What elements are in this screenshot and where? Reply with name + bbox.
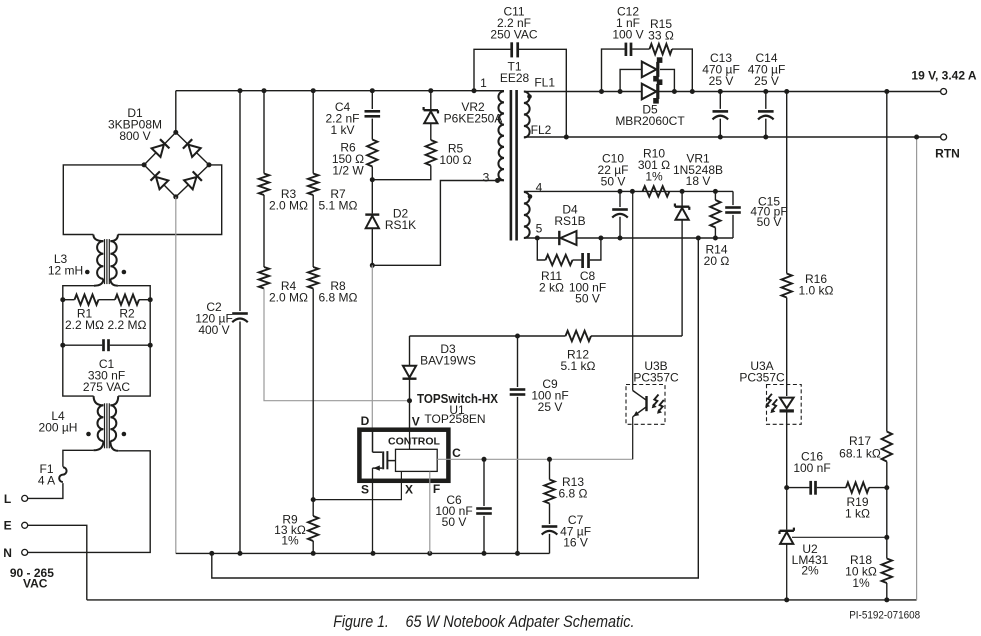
svg-text:100 nF: 100 nF (793, 461, 830, 475)
resistor R5 (372, 140, 471, 180)
svg-text:1%: 1% (852, 576, 870, 590)
wire RTN rail (524, 135, 941, 140)
wire R1/R2 line to L3 bottoms (63, 286, 150, 300)
wire bridge negative to ground bus (175, 197, 177, 554)
svg-text:25 V: 25 V (538, 400, 563, 414)
wire L terminal to fuse (28, 483, 63, 498)
input terminal E (4, 519, 28, 533)
wire bridge positive to HV bus (175, 91, 177, 133)
svg-text:100 V: 100 V (612, 27, 643, 41)
svg-text:RS1B: RS1B (554, 214, 585, 228)
zener diode VR2 (424, 91, 503, 140)
resistor R19 (845, 482, 887, 520)
svg-text:N: N (3, 546, 12, 560)
svg-text:PC357C: PC357C (739, 371, 785, 385)
capacitor C1 (60, 339, 152, 394)
wire C pin line (437, 457, 633, 462)
capacitor C10 (598, 152, 629, 238)
svg-text:6.8 MΩ: 6.8 MΩ (319, 291, 358, 305)
resistor R16 (782, 92, 834, 397)
U1 internal mosfet (373, 430, 396, 471)
svg-text:275 VAC: 275 VAC (83, 380, 130, 394)
resistor R10 (638, 147, 670, 197)
shunt regulator U2 LM431 (780, 488, 887, 603)
wire R8 to X node (311, 289, 316, 503)
transformer T1 core (500, 60, 530, 241)
svg-text:F: F (433, 482, 440, 496)
wire R4 to V pin node (264, 289, 410, 401)
svg-text:1%: 1% (645, 169, 663, 183)
output terminal RTN (935, 134, 960, 161)
svg-text:2.2 MΩ: 2.2 MΩ (108, 318, 147, 332)
resistor R1 (60, 295, 104, 333)
svg-text:33 Ω: 33 Ω (648, 29, 674, 43)
svg-text:19 V, 3.42 A: 19 V, 3.42 A (911, 69, 976, 83)
transformer T1 secondary winding (524, 181, 543, 238)
resistor R4 (259, 195, 308, 305)
capacitor C15 (725, 191, 787, 238)
zener diode VR1 (673, 152, 723, 337)
svg-text:BAV19WS: BAV19WS (420, 354, 476, 368)
capacitor C6 (435, 459, 491, 553)
svg-text:5.1 kΩ: 5.1 kΩ (561, 359, 596, 373)
resistor R2 (99, 295, 153, 333)
svg-text:200 µH: 200 µH (39, 421, 78, 435)
svg-text:FL1: FL1 (534, 76, 555, 90)
wire fuse to L4 left winding (63, 450, 94, 466)
svg-text:250 VAC: 250 VAC (490, 27, 537, 41)
svg-text:2.0 MΩ: 2.0 MΩ (269, 199, 308, 213)
diode D3 (403, 336, 476, 401)
svg-text:P6KE250A: P6KE250A (444, 112, 503, 126)
snubber C12 (602, 5, 650, 92)
wire output rail (524, 89, 941, 94)
svg-text:20 Ω: 20 Ω (704, 254, 730, 268)
svg-text:X: X (405, 483, 413, 497)
ic U1 body (359, 430, 448, 481)
node clamp top (370, 177, 375, 182)
svg-text:1 kV: 1 kV (330, 123, 354, 137)
pin V label (412, 415, 420, 429)
svg-text:50 V: 50 V (442, 515, 467, 529)
wire ground bus to bias return link (212, 236, 701, 579)
pin X label (405, 483, 413, 497)
capacitor C16 (787, 450, 846, 495)
wire L3 right to bridge AC right (118, 165, 222, 235)
svg-text:4 A: 4 A (38, 474, 55, 488)
capacitor C13 (702, 51, 740, 137)
resistor R9 (274, 500, 318, 554)
fuse F1 (38, 462, 67, 487)
svg-text:1%: 1% (281, 534, 299, 548)
resistor R3 (259, 91, 308, 213)
wire VR1 to R12 line (410, 334, 683, 339)
wire bias return rail (pin 5) (524, 236, 733, 241)
svg-text:50 V: 50 V (757, 215, 782, 229)
label 90-265 VAC (10, 566, 54, 590)
node V pin (407, 398, 412, 430)
svg-text:D: D (361, 414, 370, 428)
capacitor C11 (474, 5, 569, 140)
wire L4 to C1 box rails (63, 345, 150, 396)
optocoupler U3A photodiode (739, 359, 801, 424)
svg-text:5.1 MΩ: 5.1 MΩ (319, 199, 358, 213)
svg-text:1 kΩ: 1 kΩ (845, 507, 870, 521)
svg-text:16 V: 16 V (563, 536, 588, 550)
svg-text:50 V: 50 V (575, 292, 600, 306)
svg-text:1: 1 (480, 76, 487, 90)
svg-text:L: L (4, 492, 11, 506)
bridge rectifier D1 (108, 106, 212, 199)
svg-text:RS1K: RS1K (385, 218, 416, 232)
resistor R13 (544, 459, 587, 503)
svg-text:5: 5 (536, 222, 543, 236)
wire S pin to ground bus (372, 468, 374, 553)
pin S label (361, 483, 369, 497)
wire U3A cathode to C16 node (784, 410, 789, 490)
svg-text:EE28: EE28 (500, 71, 530, 85)
optocoupler U3B phototransistor (626, 191, 679, 459)
svg-text:MBR2060CT: MBR2060CT (615, 114, 685, 128)
capacitor C2 (195, 91, 248, 554)
input terminal L (4, 492, 28, 506)
svg-text:2.2 MΩ: 2.2 MΩ (65, 318, 104, 332)
svg-text:25 V: 25 V (754, 74, 779, 88)
label U1 TOP258EN (424, 403, 485, 426)
capacitor C9 (510, 336, 569, 553)
wire X pin to R8/R9 node (313, 472, 401, 500)
diode D2 (365, 180, 416, 266)
svg-text:2 kΩ: 2 kΩ (539, 280, 564, 294)
svg-text:Figure 1.: Figure 1. (333, 612, 389, 631)
wire primary ground bus (176, 551, 550, 556)
U1 internal control block (396, 430, 438, 472)
output terminal 19V (911, 69, 976, 95)
svg-text:2%: 2% (801, 563, 819, 577)
pin C label (452, 446, 461, 460)
svg-text:1/2 W: 1/2 W (332, 163, 364, 177)
transformer T1 primary winding (474, 76, 504, 185)
caption PI number (849, 609, 920, 621)
wire N terminal to L4 right winding (28, 451, 151, 553)
svg-text:1.0 kΩ: 1.0 kΩ (799, 284, 834, 298)
svg-text:12 mH: 12 mH (48, 264, 83, 278)
resistor R6 (332, 140, 378, 180)
svg-text:PI-5192-071608: PI-5192-071608 (849, 609, 920, 621)
svg-text:100 Ω: 100 Ω (439, 153, 471, 167)
wire RTN riser right side (914, 135, 919, 600)
svg-text:4: 4 (536, 181, 543, 195)
svg-text:68.1 kΩ: 68.1 kΩ (839, 446, 881, 460)
transformer T1 shield winding FL1/FL2 (524, 76, 555, 138)
wire E terminal to bottom return line (28, 525, 87, 600)
svg-text:PC357C: PC357C (633, 371, 679, 385)
capacitor C4 (325, 91, 380, 140)
wire bias positive rail (pin 4) (524, 189, 733, 194)
wire R17 rail to R18 (884, 488, 889, 559)
capacitor C14 (748, 51, 786, 137)
svg-text:E: E (4, 519, 12, 533)
wire HV bus (176, 88, 504, 93)
pin F label (433, 482, 440, 496)
resistor R18 (845, 553, 892, 602)
wire drain to D pin (371, 265, 373, 429)
pin D label (361, 414, 370, 428)
snubber R11 C8 (537, 238, 606, 306)
resistor R17 (839, 92, 892, 491)
svg-text:V: V (412, 415, 420, 429)
resistor R7 (308, 91, 358, 213)
snubber resistor R15 (648, 17, 692, 91)
svg-text:18 V: 18 V (686, 174, 711, 188)
svg-text:RTN: RTN (935, 147, 960, 161)
svg-text:25 V: 25 V (709, 74, 734, 88)
svg-text:50 V: 50 V (601, 174, 626, 188)
svg-text:VAC: VAC (23, 576, 48, 590)
wire bottom return line (E to RTN riser) (87, 599, 917, 601)
dual diode D5 upper (620, 57, 674, 91)
label TOPSwitch-HX (417, 391, 498, 406)
wire L3 left to bridge AC left (63, 165, 144, 235)
svg-text:400 V: 400 V (198, 323, 229, 337)
svg-text:TOP258EN: TOP258EN (424, 412, 485, 426)
svg-text:C: C (452, 446, 461, 460)
common mode choke L3 (48, 235, 126, 286)
caption figure title (333, 612, 634, 631)
svg-text:65 W Notebook Adpater Schemati: 65 W Notebook Adpater Schematic. (406, 612, 635, 631)
diode D4 (554, 203, 585, 246)
svg-text:CONTROL: CONTROL (388, 435, 440, 447)
resistor R14 (704, 191, 730, 268)
resistor R12 (561, 331, 596, 373)
dual diode D5 lower (615, 79, 685, 128)
wire drain loop (pin3 to D2 anode) (370, 181, 504, 268)
capacitor C7 (542, 504, 591, 554)
svg-text:S: S (361, 483, 369, 497)
svg-text:3: 3 (483, 171, 490, 185)
svg-text:2.0 MΩ: 2.0 MΩ (269, 291, 308, 305)
svg-text:6.8 Ω: 6.8 Ω (559, 487, 588, 501)
wire C1 rails to R1/R2 line (63, 300, 150, 346)
common mode choke L4 (39, 396, 127, 451)
svg-text:FL2: FL2 (531, 123, 552, 137)
svg-text:800 V: 800 V (119, 129, 150, 143)
wire F pin to ground bus (429, 472, 431, 554)
resistor R8 (308, 195, 358, 305)
input terminal N (3, 546, 27, 560)
